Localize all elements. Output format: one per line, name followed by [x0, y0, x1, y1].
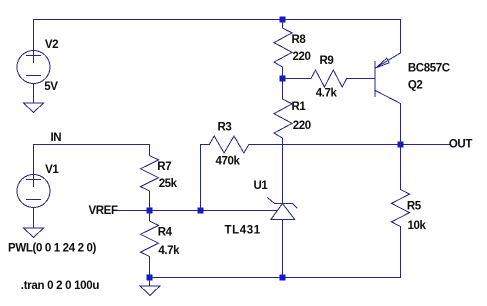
- voltage source V2: [17, 49, 50, 84]
- ground below V2: [24, 103, 44, 113]
- wire VREF rail: [118, 210, 277, 212]
- junction OUT node: [398, 142, 404, 148]
- resistor R1: [274, 79, 292, 139]
- svg-text:4.7k: 4.7k: [158, 245, 180, 257]
- junction bottom left: [147, 275, 153, 281]
- svg-text:5V: 5V: [44, 81, 58, 93]
- voltage source V1: [17, 173, 50, 208]
- svg-text:PWL(0 0 1 24 2 0): PWL(0 0 1 24 2 0): [8, 242, 97, 254]
- svg-text:VREF: VREF: [89, 205, 118, 217]
- svg-text:R8: R8: [292, 34, 307, 46]
- ground below V1: [24, 228, 44, 238]
- svg-text:.tran 0 2 0 100u: .tran 0 2 0 100u: [21, 280, 100, 292]
- svg-text:U1: U1: [254, 180, 269, 192]
- wire TL431 anode to bottom rail: [282, 220, 284, 278]
- wire V2 top stub: [33, 20, 35, 51]
- resistor R8: [274, 20, 292, 79]
- svg-text:10k: 10k: [408, 220, 427, 232]
- resistor R4: [141, 211, 159, 278]
- junction VREF at R3 branch: [198, 208, 204, 214]
- IC U1 TL431: [268, 198, 297, 220]
- wire bottom rail: [150, 277, 401, 279]
- wire emitter vertical: [400, 20, 402, 54]
- wire V2 to ground: [33, 84, 35, 104]
- svg-text:BC857C: BC857C: [408, 62, 450, 74]
- svg-text:IN: IN: [51, 132, 62, 144]
- svg-text:Q2: Q2: [408, 79, 423, 91]
- resistor R7: [141, 145, 159, 211]
- svg-text:R7: R7: [157, 161, 171, 173]
- junction VREF at R7/R4: [147, 208, 153, 214]
- ground bottom: [140, 286, 160, 296]
- svg-text:V1: V1: [45, 164, 59, 176]
- svg-text:220: 220: [293, 120, 311, 132]
- svg-text:R3: R3: [218, 122, 232, 134]
- svg-text:4.7k: 4.7k: [316, 87, 338, 99]
- svg-text:TL431: TL431: [225, 225, 261, 237]
- transistor Q2: [375, 53, 401, 104]
- svg-text:OUT: OUT: [449, 139, 472, 151]
- svg-text:220: 220: [293, 51, 311, 63]
- wire top rail V+: [34, 19, 401, 21]
- resistor R9: [283, 70, 347, 87]
- svg-text:V2: V2: [45, 39, 58, 51]
- wire IN horizontal: [34, 144, 150, 146]
- wire V1 to ground: [33, 208, 35, 229]
- svg-text:470k: 470k: [216, 156, 241, 168]
- wire mid rail to OUT: [249, 144, 450, 146]
- wire collector vertical: [400, 104, 402, 145]
- wire ground stub: [149, 278, 151, 286]
- junction top rail at R8: [280, 17, 286, 23]
- junction R8/R9/R1: [280, 76, 286, 82]
- resistor R5: [392, 145, 410, 278]
- wire R3 branch vertical: [200, 145, 202, 211]
- svg-text:R9: R9: [320, 55, 334, 67]
- svg-text:25k: 25k: [159, 178, 178, 190]
- wire base of Q2: [347, 78, 375, 80]
- junction TL431 anode at bottom rail: [280, 275, 286, 281]
- resistor R3: [201, 136, 249, 153]
- svg-text:R1: R1: [292, 101, 307, 113]
- wire V1 top stub: [33, 145, 35, 175]
- wire R1 to TL431 cathode: [282, 138, 284, 204]
- svg-text:R4: R4: [158, 227, 173, 239]
- svg-text:R5: R5: [407, 201, 422, 213]
